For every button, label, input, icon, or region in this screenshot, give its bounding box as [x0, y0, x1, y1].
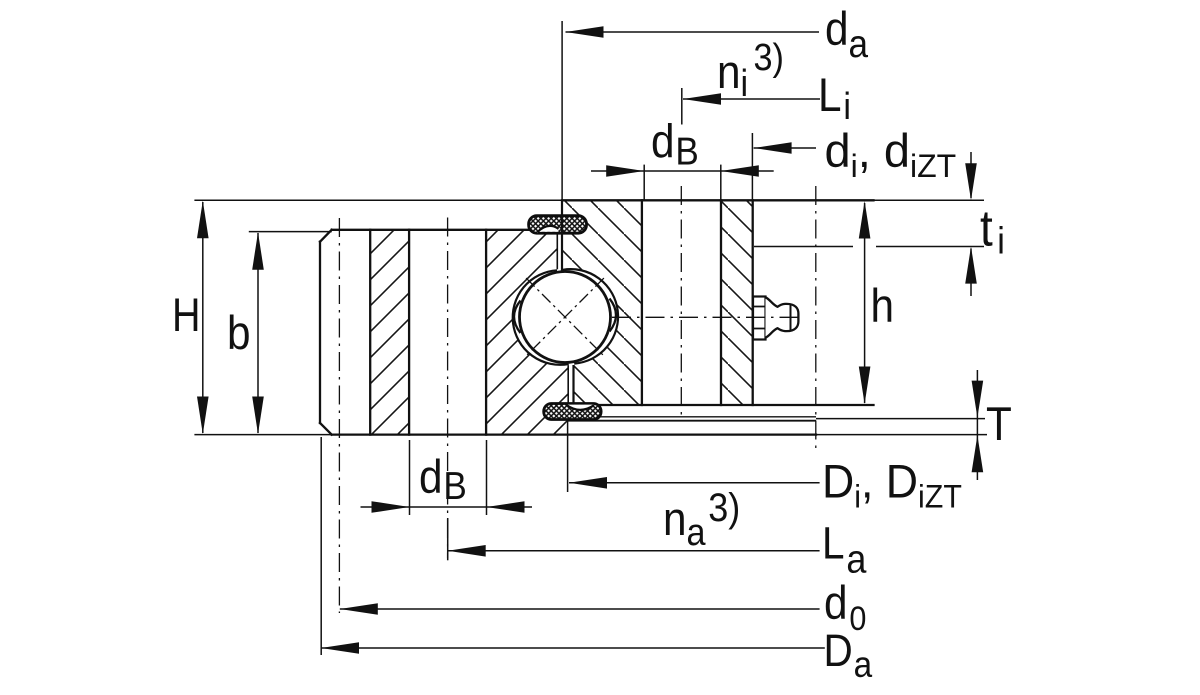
ball centre cross diagonal 2 [526, 278, 604, 356]
bottom seal [544, 404, 601, 420]
outer ring outline [320, 230, 816, 435]
outer ring hatched section [486, 230, 569, 435]
centre line bolt hole outer ring [338, 218, 340, 613]
inner ring bolt hole right edge [720, 200, 722, 405]
dimension d_B top [591, 165, 774, 177]
outer ring outside edge (Da) [319, 242, 321, 423]
dimension D_a [321, 642, 825, 654]
outer ring bolt hole right edge [485, 230, 487, 435]
dB bottom tick right [486, 440, 488, 515]
grease nipple [753, 297, 798, 340]
top seal [529, 216, 587, 234]
dimension d_a [566, 26, 820, 38]
outer ring top face [332, 229, 557, 231]
svg-text:T: T [986, 399, 1012, 451]
dB top tick left [643, 165, 645, 200]
thin extension lines [194, 21, 987, 655]
svg-text:b: b [227, 308, 251, 360]
dimension D_i [569, 477, 820, 489]
inner race arc [563, 269, 618, 363]
lower gap left line [567, 365, 569, 404]
dimension b [252, 232, 264, 434]
horizontal centre line [612, 316, 803, 318]
T tick [976, 412, 978, 443]
di extension tick [751, 133, 753, 199]
inner ring bottom face [574, 404, 874, 406]
centre line bore inner ring [815, 186, 817, 450]
Da extension [320, 437, 322, 655]
race relief notch right [609, 298, 617, 333]
dimension t_i arrows [965, 152, 977, 296]
svg-text:h: h [871, 281, 895, 333]
outer ring gear root edge [369, 230, 371, 435]
inner ring top face [562, 199, 874, 201]
outer ring top chamfer [320, 230, 332, 242]
dimension h [859, 201, 871, 404]
dB bottom tick left [409, 440, 411, 515]
outer ring gear band hatch [370, 230, 409, 435]
inner ring bolt hole left edge [641, 200, 643, 405]
dimension d_B bottom [361, 501, 533, 513]
dimension H [197, 201, 209, 434]
bottom extension left [194, 434, 331, 436]
T top extension [816, 418, 985, 420]
Li extension tick [681, 88, 683, 125]
inner ring hatched section [562, 200, 642, 405]
H top extension [194, 199, 562, 201]
dimension T arrows [972, 370, 984, 480]
outer ring bottom face and spacer bottom [332, 433, 816, 435]
inner ring hatch band [721, 200, 753, 405]
dimension d_i [754, 142, 816, 154]
lower gap right line [572, 365, 574, 409]
outer race arc [513, 270, 569, 365]
bottom extension right for T [816, 434, 987, 436]
spacer strip lines [568, 417, 816, 421]
dimension L_i [683, 93, 820, 105]
dimension d_0 [340, 603, 820, 615]
inner ring outline [562, 200, 874, 405]
dimension L_a [448, 518, 820, 560]
ball [520, 272, 611, 363]
outer ring lip edge / Di extension [567, 419, 569, 492]
dB top tick right [720, 165, 722, 200]
race relief notch left [514, 300, 522, 335]
centre line hole inner ring [680, 186, 682, 417]
da extension line [561, 21, 563, 200]
outer ring bottom chamfer [320, 423, 332, 435]
upper gap right line (through seal) [561, 200, 563, 271]
ti root line [754, 246, 984, 248]
ball centre cross diagonal 1 [526, 278, 604, 356]
outer ring bolt hole left edge [408, 230, 410, 435]
upper gap left line [556, 233, 558, 269]
centre line hole outer ring [447, 218, 449, 559]
b top extension [249, 231, 332, 233]
top surface extension right for ti [874, 199, 985, 201]
inner ring bore edge [752, 200, 754, 405]
svg-text:H: H [172, 290, 201, 342]
